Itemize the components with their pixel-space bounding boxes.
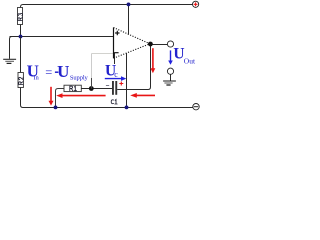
- svg-text:In: In: [33, 75, 39, 82]
- svg-text:Out: Out: [184, 56, 196, 65]
- svg-text:c: c: [114, 70, 118, 79]
- svg-text:U: U: [57, 62, 69, 81]
- svg-text:=: =: [45, 65, 52, 79]
- svg-text:Supply: Supply: [70, 74, 89, 81]
